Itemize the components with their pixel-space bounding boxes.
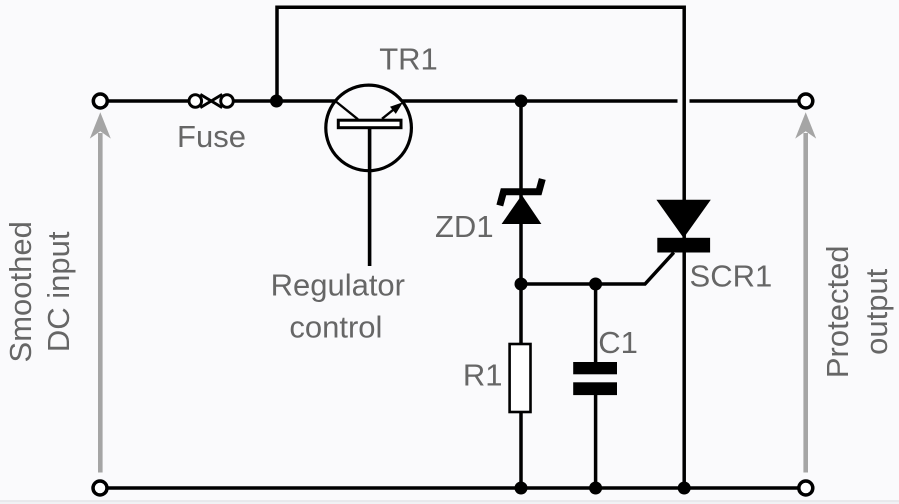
junction R1 bottom at rail <box>515 482 528 495</box>
zener diode ZD1 <box>500 179 543 224</box>
page divider line at figure bottom <box>0 500 899 502</box>
svg-text:control: control <box>289 310 382 345</box>
svg-text:Regulator: Regulator <box>271 267 405 302</box>
wire bottom rail <box>108 486 798 490</box>
junction SCR1 cathode at rail <box>678 482 691 495</box>
junction C1 top at gate node <box>589 278 602 291</box>
annotation arrow input side <box>90 112 111 472</box>
wire C1 branch top <box>594 284 598 364</box>
terminal input bottom <box>93 481 107 495</box>
wire C1 branch bottom <box>594 393 598 488</box>
wire main rail: crossover gap to output terminal <box>690 99 798 103</box>
wire ZD1 branch: rail junction down through ZD1 and R1 to bottom rail <box>519 101 523 488</box>
thyristor SCR1 <box>656 200 710 253</box>
svg-text:Protected: Protected <box>820 245 855 378</box>
svg-text:output: output <box>859 268 894 355</box>
capacitor C1 <box>573 362 617 395</box>
wire main rail: TR1 right edge to crossover gap <box>403 99 678 103</box>
resistor R1 <box>510 344 531 412</box>
terminal output bottom <box>799 481 813 495</box>
fuse F1 <box>189 94 233 107</box>
junction C1 bottom at rail <box>589 482 602 495</box>
wire main rail: input terminal to fuse <box>109 99 190 103</box>
terminal output top <box>799 94 813 108</box>
terminal input top <box>93 94 107 108</box>
junction ZD1 top at rail <box>515 95 528 108</box>
svg-text:TR1: TR1 <box>379 41 438 76</box>
svg-text:Smoothed: Smoothed <box>3 221 38 362</box>
svg-text:C1: C1 <box>598 325 638 360</box>
svg-text:SCR1: SCR1 <box>690 259 773 294</box>
transistor TR1 <box>326 85 412 266</box>
svg-text:R1: R1 <box>463 357 503 392</box>
junction ZD1 anode / gate node <box>515 278 528 291</box>
annotation arrow output side <box>795 112 816 472</box>
svg-text:Fuse: Fuse <box>177 119 246 154</box>
svg-text:DC input: DC input <box>41 231 76 352</box>
svg-text:ZD1: ZD1 <box>435 209 494 244</box>
wire gate node: ZD1 junction right then up to SCR1 gate <box>521 253 674 285</box>
junction top of fuse branch <box>270 95 283 108</box>
wire top rail: junction up, across top, down to SCR1 anode and cathode to bottom rail <box>277 7 684 488</box>
wire main rail: fuse to TR1 left edge <box>234 99 335 103</box>
